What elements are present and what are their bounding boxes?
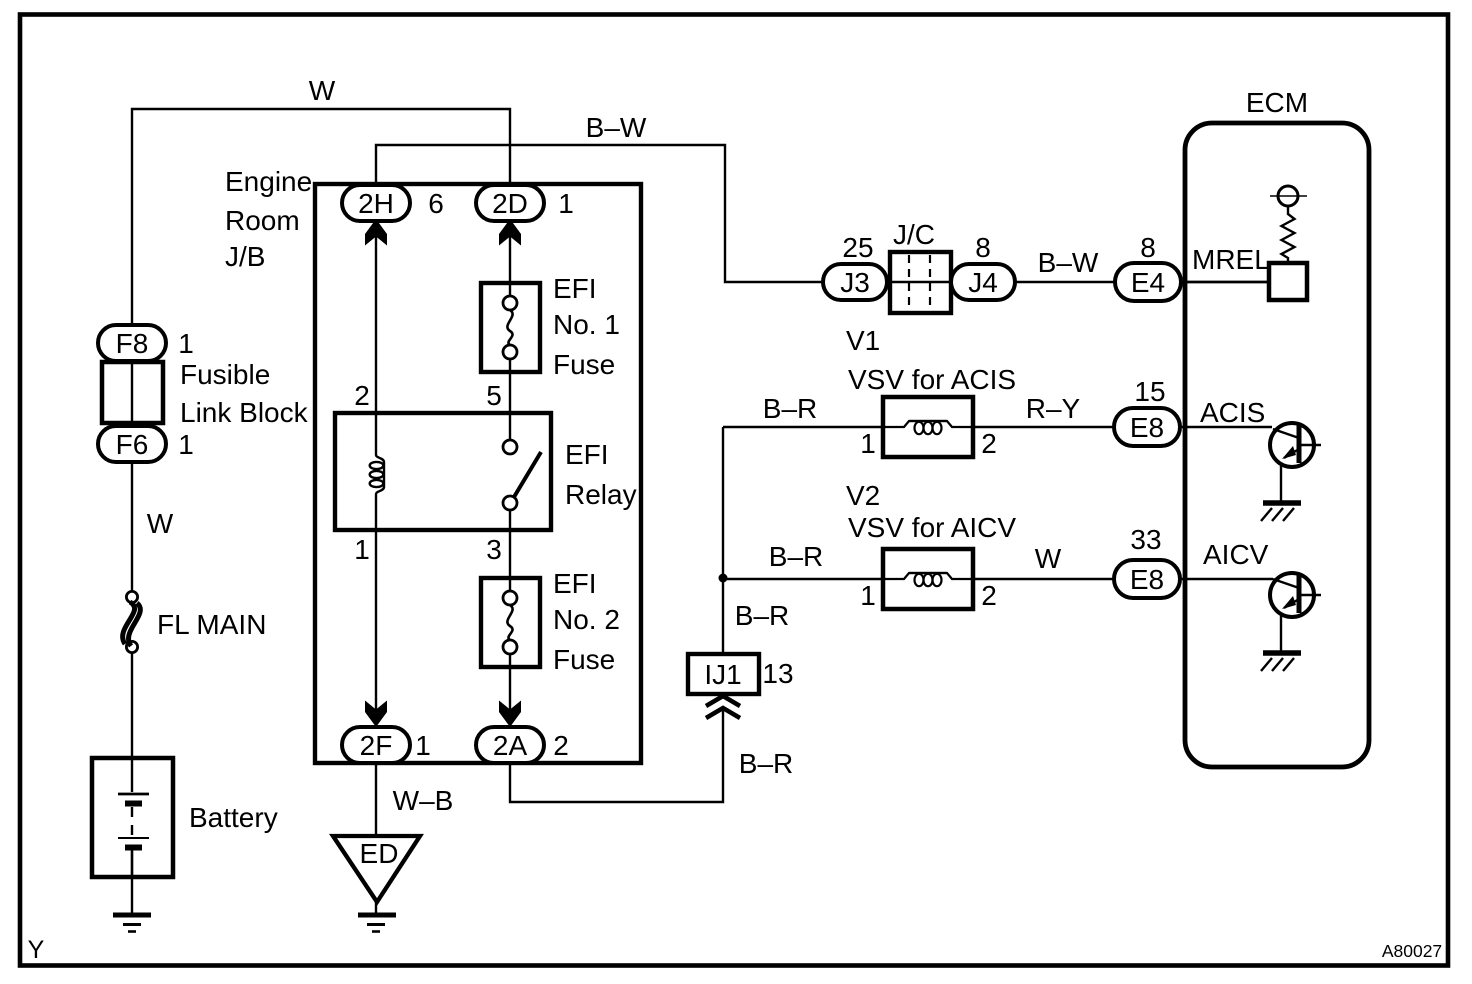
svg-text:J/B: J/B [225,241,265,272]
svg-text:R–Y: R–Y [1026,393,1081,424]
svg-text:1: 1 [178,328,194,359]
svg-text:1: 1 [178,429,194,460]
svg-text:1: 1 [558,188,574,219]
svg-text:J3: J3 [840,267,870,298]
svg-text:5: 5 [486,380,502,411]
svg-text:B–R: B–R [735,600,789,631]
svg-text:E8: E8 [1130,564,1164,595]
svg-text:B–R: B–R [763,393,817,424]
svg-text:2A: 2A [493,730,528,761]
svg-text:Y: Y [28,936,45,964]
svg-text:ACIS: ACIS [1200,397,1265,428]
svg-text:No. 1: No. 1 [553,309,620,340]
svg-text:B–W: B–W [1038,247,1099,278]
svg-text:EFI: EFI [553,273,597,304]
svg-text:EFI: EFI [565,439,609,470]
svg-text:E4: E4 [1131,267,1165,298]
svg-text:IJ1: IJ1 [704,659,741,690]
svg-text:Room: Room [225,205,300,236]
svg-text:E8: E8 [1130,412,1164,443]
svg-text:1: 1 [860,428,876,459]
svg-text:B–R: B–R [739,748,793,779]
svg-text:1: 1 [860,580,876,611]
svg-text:F8: F8 [116,328,149,359]
svg-text:EFI: EFI [553,568,597,599]
svg-text:V2: V2 [846,480,880,511]
svg-text:AICV: AICV [1203,539,1269,570]
svg-text:2H: 2H [358,188,394,219]
svg-text:J/C: J/C [893,219,935,250]
svg-text:8: 8 [975,232,991,263]
svg-text:2: 2 [553,730,569,761]
svg-text:J4: J4 [968,267,998,298]
svg-text:2F: 2F [360,730,393,761]
svg-text:2: 2 [981,580,997,611]
svg-text:B–R: B–R [769,541,823,572]
svg-text:13: 13 [762,658,793,689]
svg-text:VSV for ACIS: VSV for ACIS [848,364,1016,395]
svg-text:Battery: Battery [189,802,278,833]
svg-text:25: 25 [842,232,873,263]
svg-text:FL MAIN: FL MAIN [157,609,266,640]
svg-text:2: 2 [354,380,370,411]
svg-text:F6: F6 [116,429,149,460]
svg-text:V1: V1 [846,325,880,356]
svg-text:W: W [147,508,174,539]
svg-text:Engine: Engine [225,166,312,197]
svg-text:8: 8 [1140,232,1156,263]
svg-text:Fuse: Fuse [553,644,615,675]
svg-text:MREL: MREL [1192,244,1270,275]
svg-text:B–W: B–W [586,112,647,143]
svg-text:3: 3 [486,534,502,565]
svg-text:Relay: Relay [565,479,637,510]
svg-text:ECM: ECM [1246,87,1308,118]
svg-text:A80027: A80027 [1382,941,1442,961]
svg-text:ED: ED [360,838,399,869]
svg-text:VSV for AICV: VSV for AICV [848,512,1016,543]
svg-text:No. 2: No. 2 [553,604,620,635]
svg-text:1: 1 [415,730,431,761]
svg-text:Link Block: Link Block [180,397,309,428]
svg-text:Fuse: Fuse [553,349,615,380]
svg-text:2D: 2D [492,188,528,219]
svg-text:W: W [1035,543,1062,574]
svg-text:W–B: W–B [393,785,454,816]
svg-text:6: 6 [428,188,444,219]
svg-text:2: 2 [981,428,997,459]
svg-text:1: 1 [354,534,370,565]
svg-text:15: 15 [1134,376,1165,407]
svg-text:33: 33 [1130,524,1161,555]
svg-text:W: W [309,75,336,106]
svg-text:Fusible: Fusible [180,359,270,390]
